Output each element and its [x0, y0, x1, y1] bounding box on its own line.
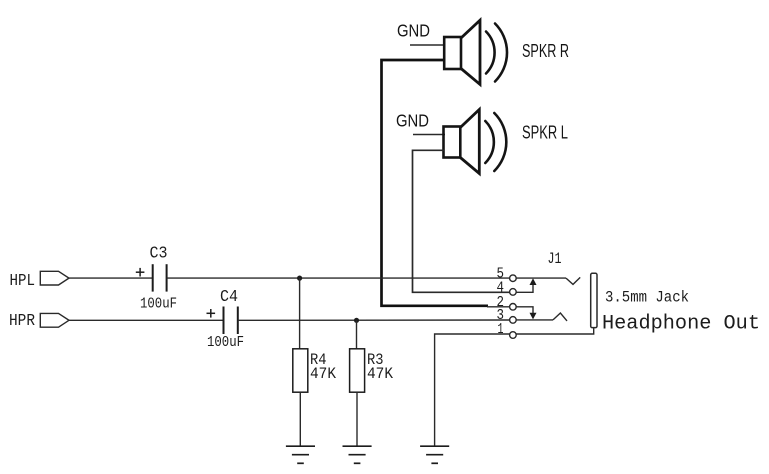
ground (jack sleeve) — [420, 446, 449, 463]
jack ring contact (caret) — [553, 313, 567, 321]
wire pin 2 to down-arrow — [516, 307, 533, 315]
wire R4 bottom to ground — [299, 392, 301, 446]
svg-text:C3: C3 — [150, 244, 168, 263]
svg-text:100uF: 100uF — [207, 334, 244, 351]
speaker SPKR L — [444, 110, 507, 174]
junction node HPL / R4 — [297, 276, 302, 281]
port HPL — [40, 271, 69, 285]
wire HPR to C4 — [69, 319, 223, 321]
capacitor C4 — [207, 307, 238, 335]
wire C4 to jack pin 3 — [238, 319, 510, 321]
port HPR — [40, 313, 69, 327]
wire junction to R4 top — [299, 278, 301, 349]
svg-text:GND: GND — [397, 20, 430, 40]
resistor R3 — [350, 349, 365, 392]
jack pin 2 — [510, 304, 517, 311]
svg-text:Headphone Out: Headphone Out — [602, 313, 760, 336]
junction node HPR / R3 — [354, 318, 359, 323]
wire R3 bottom to ground — [356, 392, 358, 446]
svg-text:J1: J1 — [548, 250, 562, 268]
arrow down (pin 2 contact) — [530, 313, 537, 320]
wire SPKR L minus terminal to jack pin 4 — [413, 150, 510, 292]
svg-text:GND: GND — [396, 110, 429, 130]
svg-text:SPKR R: SPKR R — [522, 40, 569, 61]
svg-text:HPL: HPL — [10, 271, 36, 290]
wire thin continuation to pin 2 — [487, 306, 510, 308]
jack pin 4 — [510, 289, 517, 296]
speaker SPKR R — [444, 20, 507, 84]
wire C3 to jack pin 5 — [167, 277, 510, 279]
svg-text:47K: 47K — [367, 365, 394, 383]
resistor R4 — [293, 349, 308, 392]
jack pin 1 — [510, 332, 517, 339]
jack body (sleeve bar) — [591, 273, 597, 327]
arrow up (pin 4 contact) — [530, 278, 537, 285]
wire junction to R3 top — [356, 320, 358, 349]
wire GND to SPKR L plus terminal — [413, 134, 445, 136]
jack pin 5 — [510, 275, 517, 282]
wire pin 4 to up-arrow — [516, 284, 533, 292]
wire pin 1 to jack body — [516, 328, 594, 334]
svg-text:SPKR L: SPKR L — [522, 122, 568, 143]
svg-text:47K: 47K — [310, 365, 337, 383]
ground (R4) — [286, 446, 315, 463]
svg-text:HPR: HPR — [9, 311, 35, 330]
svg-text:3.5mm Jack: 3.5mm Jack — [605, 289, 689, 307]
jack tip contact (V) — [566, 277, 580, 284]
ground (R3) — [343, 446, 372, 463]
svg-text:C4: C4 — [220, 287, 238, 306]
wire HPL to C3 — [69, 277, 152, 279]
wire SPKR R minus terminal to jack pin 2 (thick) — [382, 60, 489, 306]
svg-text:100uF: 100uF — [140, 296, 177, 313]
svg-text:1: 1 — [498, 321, 504, 338]
wire pin 3 to ring contact — [516, 319, 553, 321]
wire pin 5 to tip contact — [516, 277, 566, 279]
wire GND to SPKR R plus terminal — [410, 44, 445, 46]
jack pin 3 — [510, 317, 517, 324]
wire jack pin 1 to ground — [435, 334, 510, 446]
capacitor C3 — [136, 264, 167, 291]
